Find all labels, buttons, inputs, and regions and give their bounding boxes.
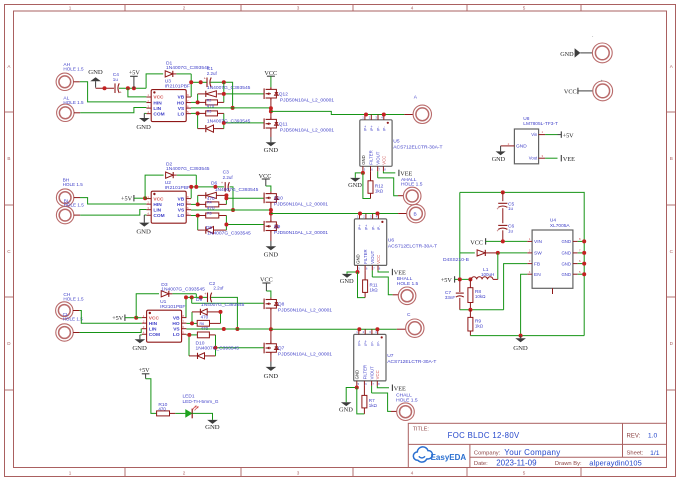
svg-text:2023-11-09: 2023-11-09 [496, 459, 537, 468]
junction dots HO A [196, 100, 200, 104]
resistor R11 1kΩ [364, 270, 366, 280]
svg-text:+: + [221, 181, 223, 185]
power +5V flag U8 [560, 131, 562, 137]
svg-text:PJD50N10AL_L2_00001: PJD50N10AL_L2_00001 [278, 352, 332, 358]
capacitor C6 1u [498, 224, 507, 226]
svg-text:B: B [414, 211, 417, 217]
svg-text:IP-: IP- [382, 126, 387, 132]
svg-text:GND: GND [132, 345, 147, 352]
svg-text:1N4007G_C393545: 1N4007G_C393545 [166, 65, 210, 71]
U7 top pins IP+/IP- [358, 329, 360, 334]
capacitor C5 1u [502, 192, 504, 201]
capacitor C2 2.2uf [207, 293, 209, 303]
svg-text:R3: R3 [207, 109, 212, 113]
svg-text:VCC: VCC [153, 196, 164, 202]
power VEE flag U7 [377, 386, 389, 388]
junction dots HO C [190, 321, 194, 325]
IC U4 XL7005A body [532, 230, 573, 288]
connector pad AL HOLE1.5 [57, 104, 74, 121]
svg-text:GND: GND [136, 228, 151, 235]
wire EN to gnd rail [521, 274, 528, 335]
svg-text:VCC: VCC [149, 315, 160, 321]
svg-text:LED1: LED1 [183, 394, 195, 400]
svg-text:1u: 1u [113, 77, 119, 82]
IC U3 IR2101PBF [151, 90, 186, 122]
svg-text:VIOUT: VIOUT [370, 366, 375, 380]
wire Vout to VEE [545, 157, 557, 159]
resistor R4 470 [206, 202, 219, 207]
ground GND flag LED [207, 420, 218, 424]
wire LO gate network C [186, 334, 197, 336]
svg-text:1: 1 [69, 471, 72, 476]
svg-text:1N4007G_C393545: 1N4007G_C393545 [196, 345, 240, 351]
svg-text:U7: U7 [387, 353, 394, 359]
svg-text:1kΩ: 1kΩ [370, 288, 379, 293]
svg-text:2.2uf: 2.2uf [223, 175, 234, 180]
svg-text:+5V: +5V [139, 367, 151, 374]
junction dots 5V rail [458, 277, 462, 281]
svg-text:HIN: HIN [153, 100, 162, 106]
wire VIOUT U6 to BHALL [371, 270, 373, 277]
junction dots HO B [196, 202, 200, 206]
svg-text:VCC: VCC [470, 240, 483, 247]
connector pad C [406, 319, 424, 337]
resistor R12 1kΩ [370, 171, 372, 181]
svg-text:HIN: HIN [153, 202, 162, 208]
connector pad CH HOLE1.5 [56, 302, 73, 319]
svg-text:2.2uf: 2.2uf [207, 71, 218, 76]
diode D9 1N4007G [200, 309, 207, 315]
wire VIOUT U7 to CHALL [371, 386, 373, 393]
svg-text:VB: VB [173, 315, 180, 321]
diode D3 1N4007G [206, 125, 214, 132]
connector pad BH HOLE1.5 [56, 189, 73, 206]
wire +5V to D3 anode C [136, 294, 159, 318]
resistor R6 470 [197, 320, 209, 326]
svg-text:HO: HO [172, 321, 179, 327]
svg-text:IP-: IP- [370, 340, 375, 346]
svg-text:HOLE 1.5: HOLE 1.5 [397, 281, 419, 287]
svg-text:GND: GND [264, 251, 279, 258]
svg-text:GND: GND [88, 69, 103, 76]
svg-text:+5V: +5V [121, 195, 133, 202]
svg-text:GND: GND [492, 156, 506, 163]
inductor L1 100uH [471, 277, 493, 280]
wire HO gate network A [191, 101, 198, 103]
svg-text:LIN: LIN [153, 207, 161, 213]
capacitor C3 2.2uf [224, 182, 226, 192]
power +5V flag A [130, 75, 138, 77]
svg-text:HOLE 1.5: HOLE 1.5 [64, 203, 85, 208]
svg-text:GND: GND [136, 124, 151, 131]
svg-text:Q11: Q11 [279, 121, 288, 127]
junction dots bootstrap B [189, 185, 193, 189]
svg-text:XL7005A: XL7005A [550, 223, 571, 229]
svg-text:LIN: LIN [153, 106, 161, 112]
svg-text:PJD50N10AL_L2_00001: PJD50N10AL_L2_00001 [280, 128, 334, 134]
svg-text:1/1: 1/1 [650, 450, 660, 457]
svg-text:1N4007G_C393545: 1N4007G_C393545 [166, 166, 210, 172]
svg-text:GND: GND [561, 239, 571, 244]
svg-text:GND: GND [561, 261, 571, 266]
connector pad CL HOLE1.5 [56, 324, 73, 341]
svg-text:D6: D6 [211, 181, 218, 187]
ground GND flag A1 [95, 81, 97, 88]
svg-text:IP-: IP- [370, 225, 375, 231]
svg-text:PJD50N10AL_L2_00001: PJD50N10AL_L2_00001 [274, 202, 328, 208]
resistor R2 470 [206, 100, 218, 105]
connector pad BHALL [398, 287, 416, 305]
svg-text:IR2101PBF: IR2101PBF [165, 185, 190, 191]
connector pad A [413, 105, 431, 123]
power VEE flag U5 [383, 171, 395, 173]
transistor Q12 PJD50N10AL [270, 87, 272, 89]
power VEE flag U6 [378, 270, 389, 272]
svg-text:GND: GND [205, 424, 220, 431]
svg-text:VB: VB [178, 196, 185, 202]
svg-text:alperaydin0105: alperaydin0105 [589, 459, 642, 468]
svg-text:470: 470 [158, 407, 166, 412]
svg-text:IP+: IP+ [357, 339, 362, 346]
svg-text:470: 470 [207, 196, 215, 201]
junction dots LO C [187, 333, 191, 337]
svg-text:LM7805L-TF3-T: LM7805L-TF3-T [523, 121, 558, 127]
wire power left rail [459, 192, 461, 279]
svg-text:4: 4 [411, 471, 414, 476]
wire bootstrap node B [195, 175, 197, 187]
junction dots U5 top [364, 113, 368, 117]
svg-text:GND: GND [339, 407, 353, 414]
wire HO gate network C [191, 297, 193, 303]
capacitor C4 1u [114, 83, 116, 93]
ground GND flag C3 [270, 352, 272, 361]
svg-text:1N4007G_C393545: 1N4007G_C393545 [207, 85, 251, 91]
wire +5V to R10 [146, 379, 157, 414]
junction dots bootstrap C [184, 295, 188, 299]
svg-text:FILTER: FILTER [362, 365, 367, 379]
svg-text:ACS712ELCTR-30A-T: ACS712ELCTR-30A-T [387, 359, 436, 365]
IC U6 ACS712ELCTR-30A-T body [354, 219, 386, 266]
IC U5 ACS712ELCTR-30A-T body [360, 120, 392, 167]
ground GND flag U6 [357, 270, 359, 272]
U4 right GND pins [573, 240, 578, 242]
svg-text:TITLE:: TITLE: [413, 426, 429, 432]
resistor R10 470 [157, 411, 170, 416]
svg-text:IP-: IP- [376, 225, 381, 231]
connector pad GND top-right [592, 43, 612, 63]
wire FB node [460, 309, 504, 311]
IC U2 IR2101PBF [151, 191, 186, 223]
svg-text:1N4007G_C393545: 1N4007G_C393545 [207, 231, 251, 237]
diode D1 1N4007G [165, 71, 173, 77]
svg-text:COM: COM [149, 332, 160, 338]
svg-text:EasyEDA: EasyEDA [431, 453, 467, 462]
wire LO gate network A [191, 112, 198, 114]
ground GND flag C2 COM [140, 334, 142, 336]
svg-text:33nF: 33nF [445, 295, 456, 300]
transistor Q9 PJD50N10AL [263, 221, 265, 232]
wire phase node B [270, 202, 272, 222]
wire R10 to LED [170, 412, 176, 414]
svg-text:3: 3 [297, 6, 300, 11]
svg-text:COM: COM [153, 111, 164, 117]
diode D5 1N4007G [206, 91, 217, 97]
svg-text:C: C [407, 312, 411, 318]
svg-text:Company:: Company: [474, 450, 501, 456]
svg-text:R5: R5 [207, 211, 212, 215]
wire phase C to sensor [271, 328, 397, 330]
transistor Q8 PJD50N10AL [263, 299, 265, 310]
svg-text:4: 4 [411, 6, 414, 11]
wire VS row A [191, 107, 233, 109]
resistor R7 1kΩ [363, 386, 365, 396]
svg-text:1.0: 1.0 [648, 433, 658, 440]
IC U1 IR2101PBF [147, 310, 182, 342]
svg-text:VCC: VCC [381, 156, 386, 165]
svg-text:GND: GND [355, 254, 360, 264]
capacitor C7 33nF [459, 279, 461, 292]
connector pad CHALL [397, 403, 415, 421]
ground GND flag A3 [270, 128, 272, 137]
svg-text:1u: 1u [508, 206, 514, 211]
svg-text:+: + [204, 77, 206, 81]
U4 left pins [527, 240, 532, 242]
svg-text:5: 5 [523, 6, 526, 11]
svg-text:FILTER: FILTER [363, 249, 368, 263]
svg-text:ACS712ELCTR-30A-T: ACS712ELCTR-30A-T [388, 244, 437, 250]
wire VCC branch A [128, 88, 146, 97]
wire LO gate network B [191, 215, 198, 217]
U7 bottom pin stubs [356, 381, 358, 386]
svg-text:VCC: VCC [375, 370, 380, 379]
ground GND flag U7 [356, 386, 358, 388]
diode D4 SS210-B [460, 252, 475, 254]
LED LED1 green [186, 410, 192, 417]
svg-text:HO: HO [177, 100, 184, 106]
wire phase node A [270, 98, 272, 119]
svg-text:1N4007G_C393545: 1N4007G_C393545 [201, 302, 245, 308]
transistor Q7 PJD50N10AL [263, 343, 265, 354]
svg-text:HIN: HIN [149, 321, 158, 327]
svg-text:ACS712ELCTR-30A-T: ACS712ELCTR-30A-T [393, 144, 442, 150]
svg-text:COM: COM [153, 213, 164, 219]
svg-text:1u: 1u [508, 228, 514, 233]
svg-text:B: B [7, 156, 10, 161]
ground GND flag A2 COM [144, 112, 146, 114]
junction dots U7 top [357, 327, 361, 331]
svg-text:100uH: 100uH [481, 272, 494, 277]
svg-text:R2: R2 [207, 98, 212, 102]
wire CL to LIN [73, 332, 79, 334]
resistor Rx 470 phaseC low [197, 332, 209, 338]
svg-text:VCC: VCC [376, 255, 381, 264]
svg-text:VEE: VEE [394, 270, 406, 277]
svg-text:LO: LO [178, 213, 185, 219]
wire phase node C [270, 308, 272, 344]
svg-text:HOLE 1.5: HOLE 1.5 [63, 317, 84, 322]
wire +5V to D2 anode B [145, 175, 164, 198]
svg-text:470: 470 [201, 314, 209, 319]
junction dot VIN [501, 239, 505, 243]
svg-text:1N4007G_C393545: 1N4007G_C393545 [161, 287, 205, 293]
svg-text:PJD50N10AL_L2_00001: PJD50N10AL_L2_00001 [280, 98, 334, 104]
ground GND flag U4 [515, 338, 526, 342]
wire BL to LIN [74, 214, 80, 216]
svg-text:D5: D5 [206, 225, 213, 231]
svg-text:Your Company: Your Company [504, 448, 560, 457]
junction dots rail A [103, 86, 107, 90]
svg-text:IP+: IP+ [369, 125, 374, 132]
svg-text:IR2101PBF: IR2101PBF [160, 304, 185, 310]
svg-text:Q10: Q10 [274, 195, 283, 201]
svg-text:Vout: Vout [529, 156, 538, 161]
svg-text:U4: U4 [550, 218, 556, 224]
svg-text:GND: GND [560, 51, 574, 58]
svg-text:VIN: VIN [534, 239, 543, 245]
diode D3 1N4007G [161, 291, 169, 297]
U5 top pins IP+/IP- [364, 115, 366, 120]
junction dots LO B [196, 214, 200, 218]
wire U6 gnd rail [358, 272, 366, 298]
wire phase A to sensor [271, 111, 404, 114]
svg-text:U6: U6 [388, 237, 395, 243]
transistor Q10 PJD50N10AL [263, 193, 265, 204]
U6 top pins IP+/IP- [359, 214, 361, 219]
svg-text:VCC: VCC [153, 95, 164, 101]
svg-text:IP+: IP+ [364, 224, 369, 231]
svg-text:10kΩ: 10kΩ [475, 294, 486, 299]
wire BH to HIN [74, 197, 80, 199]
svg-text:+: + [601, 79, 603, 83]
svg-text:FB: FB [534, 261, 540, 267]
diode D5 1N4007G phaseB [206, 227, 214, 234]
connector pad VCC top-right [593, 81, 613, 101]
svg-text:Drawn By:: Drawn By: [555, 461, 582, 467]
svg-text:5: 5 [523, 471, 526, 476]
svg-text:EN: EN [534, 272, 541, 278]
wire Vin to +5V [545, 134, 557, 136]
svg-text:IP-: IP- [375, 340, 380, 346]
svg-text:FILTER: FILTER [368, 150, 373, 164]
svg-text:2.2uf: 2.2uf [213, 285, 224, 290]
svg-text:GND: GND [264, 147, 279, 154]
svg-text:+5V: +5V [563, 132, 575, 139]
U5 bottom pin stubs [362, 166, 364, 171]
resistor R5 470 [206, 213, 219, 218]
junction dot U7 gnd [355, 386, 359, 390]
resistor R3 470 [206, 111, 218, 116]
ground GND flag U5 [362, 171, 364, 173]
wire VIOUT U5 to AHALL [377, 171, 379, 178]
wire CH to HIN [73, 310, 79, 312]
svg-text:HO: HO [177, 202, 184, 208]
svg-text:VEE: VEE [563, 156, 575, 163]
svg-text:VEE: VEE [400, 171, 412, 178]
svg-text:VS: VS [173, 326, 180, 332]
svg-text:Q9: Q9 [274, 224, 281, 230]
diode D6 1N4007G [206, 192, 217, 198]
svg-text:GND: GND [264, 373, 279, 380]
wire U5 gnd rail [363, 173, 371, 199]
svg-text:VB: VB [178, 95, 185, 101]
svg-text:SW: SW [534, 251, 542, 257]
svg-text:+5V: +5V [441, 277, 453, 284]
svg-text:1N4007G_C393545: 1N4007G_C393545 [215, 187, 259, 193]
svg-text:1kΩ: 1kΩ [369, 403, 378, 408]
svg-text:IP+: IP+ [363, 339, 368, 346]
wire AH to HIN [74, 81, 80, 83]
svg-text:VEE: VEE [394, 385, 406, 392]
svg-text:VS: VS [178, 106, 185, 112]
svg-text:HOLE 1.5: HOLE 1.5 [63, 182, 84, 187]
ground GND flag B3 [270, 231, 272, 242]
wire phase B to sensor [271, 213, 398, 215]
svg-text:2: 2 [183, 471, 186, 476]
svg-text:HOLE 1.5: HOLE 1.5 [63, 66, 84, 71]
diode D10 1N4007G [198, 353, 205, 359]
svg-text:PJD50N10AL_L2_00001: PJD50N10AL_L2_00001 [274, 230, 328, 236]
svg-text:Sheet:: Sheet: [627, 450, 644, 456]
junction dot U5 gnd [361, 171, 365, 175]
connector pad B [407, 204, 425, 222]
logo EasyEDA [413, 447, 432, 462]
wire bootstrap node C [195, 294, 197, 298]
svg-text:Date:: Date: [474, 461, 488, 467]
svg-text:GND: GND [561, 272, 571, 277]
svg-text:GND: GND [361, 155, 366, 165]
svg-text:GND: GND [561, 251, 571, 256]
svg-text:HOLE 1.5: HOLE 1.5 [63, 100, 84, 105]
wire AL to LIN [74, 112, 80, 114]
transistor Q11 PJD50N10AL [263, 118, 265, 129]
svg-text:1: 1 [69, 6, 72, 11]
svg-text:IP-: IP- [376, 126, 381, 132]
svg-text:HOLE 1.5: HOLE 1.5 [63, 297, 84, 302]
svg-text:+: + [120, 90, 122, 94]
svg-text:1kΩ: 1kΩ [375, 188, 384, 193]
svg-text:VCC: VCC [564, 88, 577, 95]
power VEE flag U8 [560, 155, 562, 161]
svg-text:U5: U5 [393, 138, 400, 144]
svg-text:+: + [204, 292, 206, 296]
svg-text:Q8: Q8 [278, 301, 285, 307]
svg-text:3: 3 [297, 471, 300, 476]
svg-text:GND: GND [355, 370, 360, 380]
svg-text:VIOUT: VIOUT [370, 250, 375, 264]
svg-text:D4SS210-B: D4SS210-B [443, 257, 469, 263]
IC U7 ACS712ELCTR-30A-T body [354, 334, 386, 381]
svg-text:IP+: IP+ [363, 125, 368, 132]
svg-text:REV:: REV: [627, 433, 641, 439]
wire VS row B [191, 209, 233, 211]
svg-text:+5V: +5V [112, 315, 124, 322]
wire HO gate network B [191, 203, 198, 205]
svg-text:HOLE 1.5: HOLE 1.5 [396, 397, 418, 403]
junction dots U6 top [358, 212, 362, 216]
svg-text:B: B [670, 156, 673, 161]
wire power top loop [460, 192, 584, 335]
junction dot loop top [501, 190, 505, 194]
svg-text:LED-TH-5mm_G: LED-TH-5mm_G [183, 399, 219, 405]
svg-text:1kΩ: 1kΩ [475, 324, 484, 329]
svg-text:2: 2 [183, 6, 186, 11]
wire GND-C4 rail [96, 87, 114, 89]
svg-text:+5V: +5V [129, 70, 141, 77]
svg-text:LIN: LIN [149, 326, 157, 332]
svg-text:1N4007G_C393545: 1N4007G_C393545 [207, 118, 251, 124]
wire SW node [498, 252, 528, 254]
svg-text:GND: GND [513, 345, 528, 352]
